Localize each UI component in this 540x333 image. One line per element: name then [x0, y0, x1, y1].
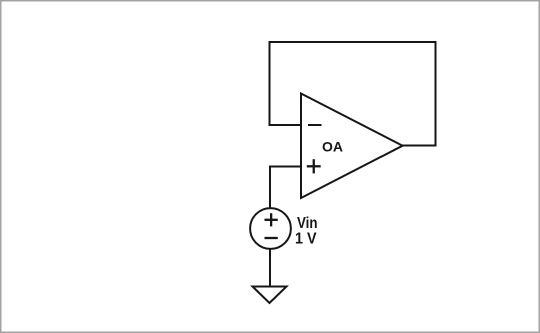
svg-text:1 V: 1 V: [295, 231, 317, 248]
svg-text:OA: OA: [322, 139, 343, 155]
